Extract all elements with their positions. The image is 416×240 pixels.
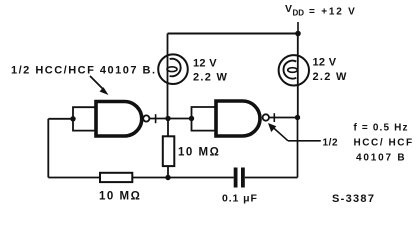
wire lamp1 drop xyxy=(167,34,169,119)
svg-text:DD: DD xyxy=(293,9,305,18)
svg-text:0.1 μF: 0.1 μF xyxy=(222,193,258,205)
wire bottom right xyxy=(245,177,298,179)
wire VDD stub xyxy=(297,22,299,34)
svg-text:2.2 W: 2.2 W xyxy=(313,71,348,83)
leader line to gate2 xyxy=(288,140,321,142)
wire gate1 input bracket xyxy=(73,107,96,130)
wire top rail xyxy=(168,33,299,35)
resistor R2 xyxy=(163,136,175,166)
wire gate1 input feed xyxy=(48,118,73,120)
node VDD junction xyxy=(295,31,301,37)
tick gate1 output xyxy=(155,114,157,123)
svg-text:2.2 W: 2.2 W xyxy=(193,72,228,84)
wire right vertical xyxy=(297,118,299,178)
node gate2 input junction xyxy=(189,116,194,121)
wire gate2 input bracket xyxy=(192,107,217,131)
bubble gate2 xyxy=(263,114,269,120)
svg-text:1/2 HCC/HCF 40107 B.: 1/2 HCC/HCF 40107 B. xyxy=(11,65,157,77)
node A junction xyxy=(165,116,170,121)
resistor R1 xyxy=(100,173,132,182)
node E junction xyxy=(295,115,300,120)
bubble gate1 xyxy=(143,115,149,121)
svg-text:40107 B: 40107 B xyxy=(356,153,406,164)
svg-text:10 MΩ: 10 MΩ xyxy=(99,191,141,203)
svg-text:= +12 V: = +12 V xyxy=(309,7,357,18)
wire gate2 output xyxy=(269,117,298,119)
node gate1 input junction xyxy=(70,116,75,121)
wire R1 left lead xyxy=(48,177,100,179)
arrowhead to gate2 bubble xyxy=(268,123,276,132)
NAND gate U1b xyxy=(216,101,260,136)
wire resistor R2 bottom lead xyxy=(167,166,169,178)
svg-text:f = 0.5 Hz: f = 0.5 Hz xyxy=(354,123,409,134)
svg-text:12 V: 12 V xyxy=(313,57,337,69)
node D junction xyxy=(165,175,170,180)
wire lamp2 drop xyxy=(297,34,299,118)
wire feedback vertical xyxy=(47,119,49,178)
wire cap left lead xyxy=(168,177,234,179)
NAND gate U1a xyxy=(96,102,142,137)
wire bottom left xyxy=(132,177,168,179)
svg-text:10 MΩ: 10 MΩ xyxy=(178,147,220,159)
svg-text:S-3387: S-3387 xyxy=(332,193,375,205)
svg-text:HCC/ HCF: HCC/ HCF xyxy=(354,138,414,149)
capacitor C1 xyxy=(234,168,238,188)
lamp LP2 xyxy=(279,55,309,85)
svg-text:V: V xyxy=(285,3,292,15)
wire gate1 output xyxy=(149,118,191,120)
tick gate2 output xyxy=(273,113,275,122)
wire resistor R2 top lead xyxy=(167,119,169,138)
svg-text:12 V: 12 V xyxy=(193,58,217,70)
svg-text:1/2: 1/2 xyxy=(323,138,339,149)
lamp LP1 xyxy=(158,54,188,84)
arrow to gate U1a xyxy=(90,76,104,90)
